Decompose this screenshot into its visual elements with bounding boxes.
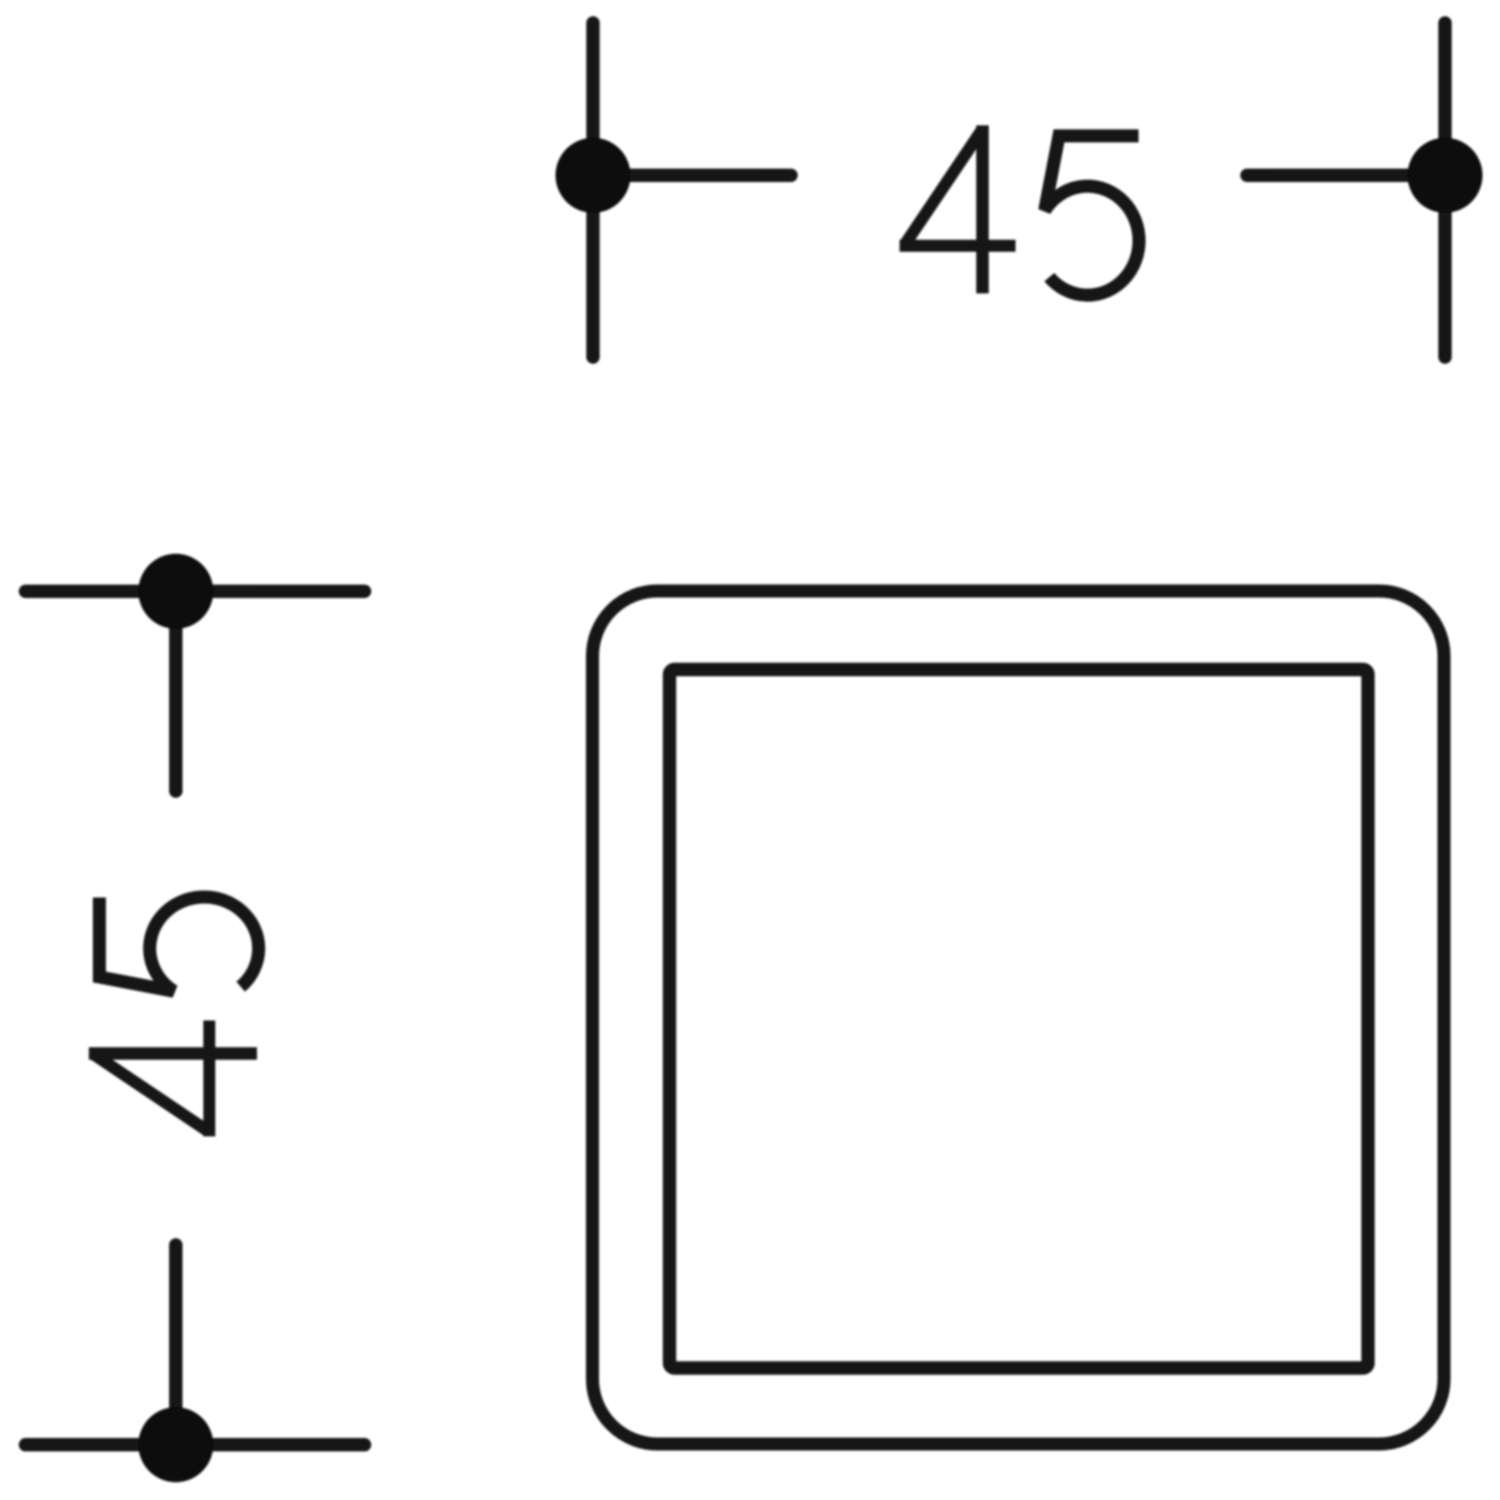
top dimension: left terminator dot (556, 138, 631, 213)
top dimension: value "45" (900, 125, 1139, 295)
inner square (plate face) (670, 670, 1369, 1369)
left dimension: value "45" (rotated) (89, 897, 259, 1136)
top dimension: right extension line (1438, 23, 1451, 357)
top dimension: left extension line (586, 23, 599, 357)
left dimension: lower dimension line segment (169, 1245, 182, 1445)
outer rounded square (plate outline) (593, 591, 1445, 1444)
left dimension: top extension line (26, 585, 365, 598)
top dimension: left dimension line segment (593, 169, 791, 182)
left dimension: bottom terminator dot (138, 1407, 213, 1482)
left dimension: bottom extension line (26, 1438, 365, 1451)
left dimension: top terminator dot (138, 554, 213, 629)
left dimension: upper dimension line segment (169, 591, 182, 791)
top dimension: right dimension line segment (1247, 169, 1445, 182)
top dimension: right terminator dot (1408, 138, 1483, 213)
